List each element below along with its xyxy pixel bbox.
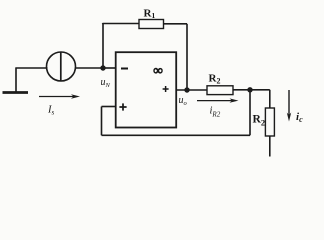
wire feedback top left — [102, 23, 139, 26]
op-amp U1 body — [116, 52, 177, 127]
wire corner down to R2 load — [269, 90, 271, 108]
resistor R1 — [139, 20, 164, 29]
wire op-amp output — [176, 89, 207, 91]
wire ground to source — [16, 67, 48, 69]
wire below load — [269, 136, 271, 157]
node output junction dot — [184, 87, 189, 92]
wire rail up to output node — [249, 90, 251, 135]
wire noninverting input — [102, 106, 116, 108]
current source Is — [47, 52, 76, 81]
wire feedback right vertical — [186, 24, 188, 90]
wire source to node N — [75, 67, 103, 69]
resistor R2 horizontal — [207, 86, 233, 95]
op-amp output polarity plus — [163, 86, 169, 92]
node load junction dot — [247, 87, 252, 92]
arrow iR2 — [197, 98, 239, 102]
arrow Is — [39, 94, 80, 98]
wire R2 to load corner — [233, 89, 270, 91]
wire node N to inverting input — [103, 67, 116, 69]
wire bottom rail — [102, 134, 251, 136]
svg-text:∞: ∞ — [153, 63, 162, 78]
wire left vertical to bottom rail — [101, 107, 103, 136]
node N junction dot — [100, 65, 105, 70]
wire R1 to right corner — [164, 23, 188, 25]
ground — [3, 68, 29, 93]
op-amp plus (noninverting) — [119, 103, 126, 110]
wire feedback left vertical — [102, 24, 104, 69]
op-amp minus sign — [121, 68, 128, 70]
resistor R2 vertical load — [265, 108, 274, 136]
arrow ic — [287, 90, 291, 122]
